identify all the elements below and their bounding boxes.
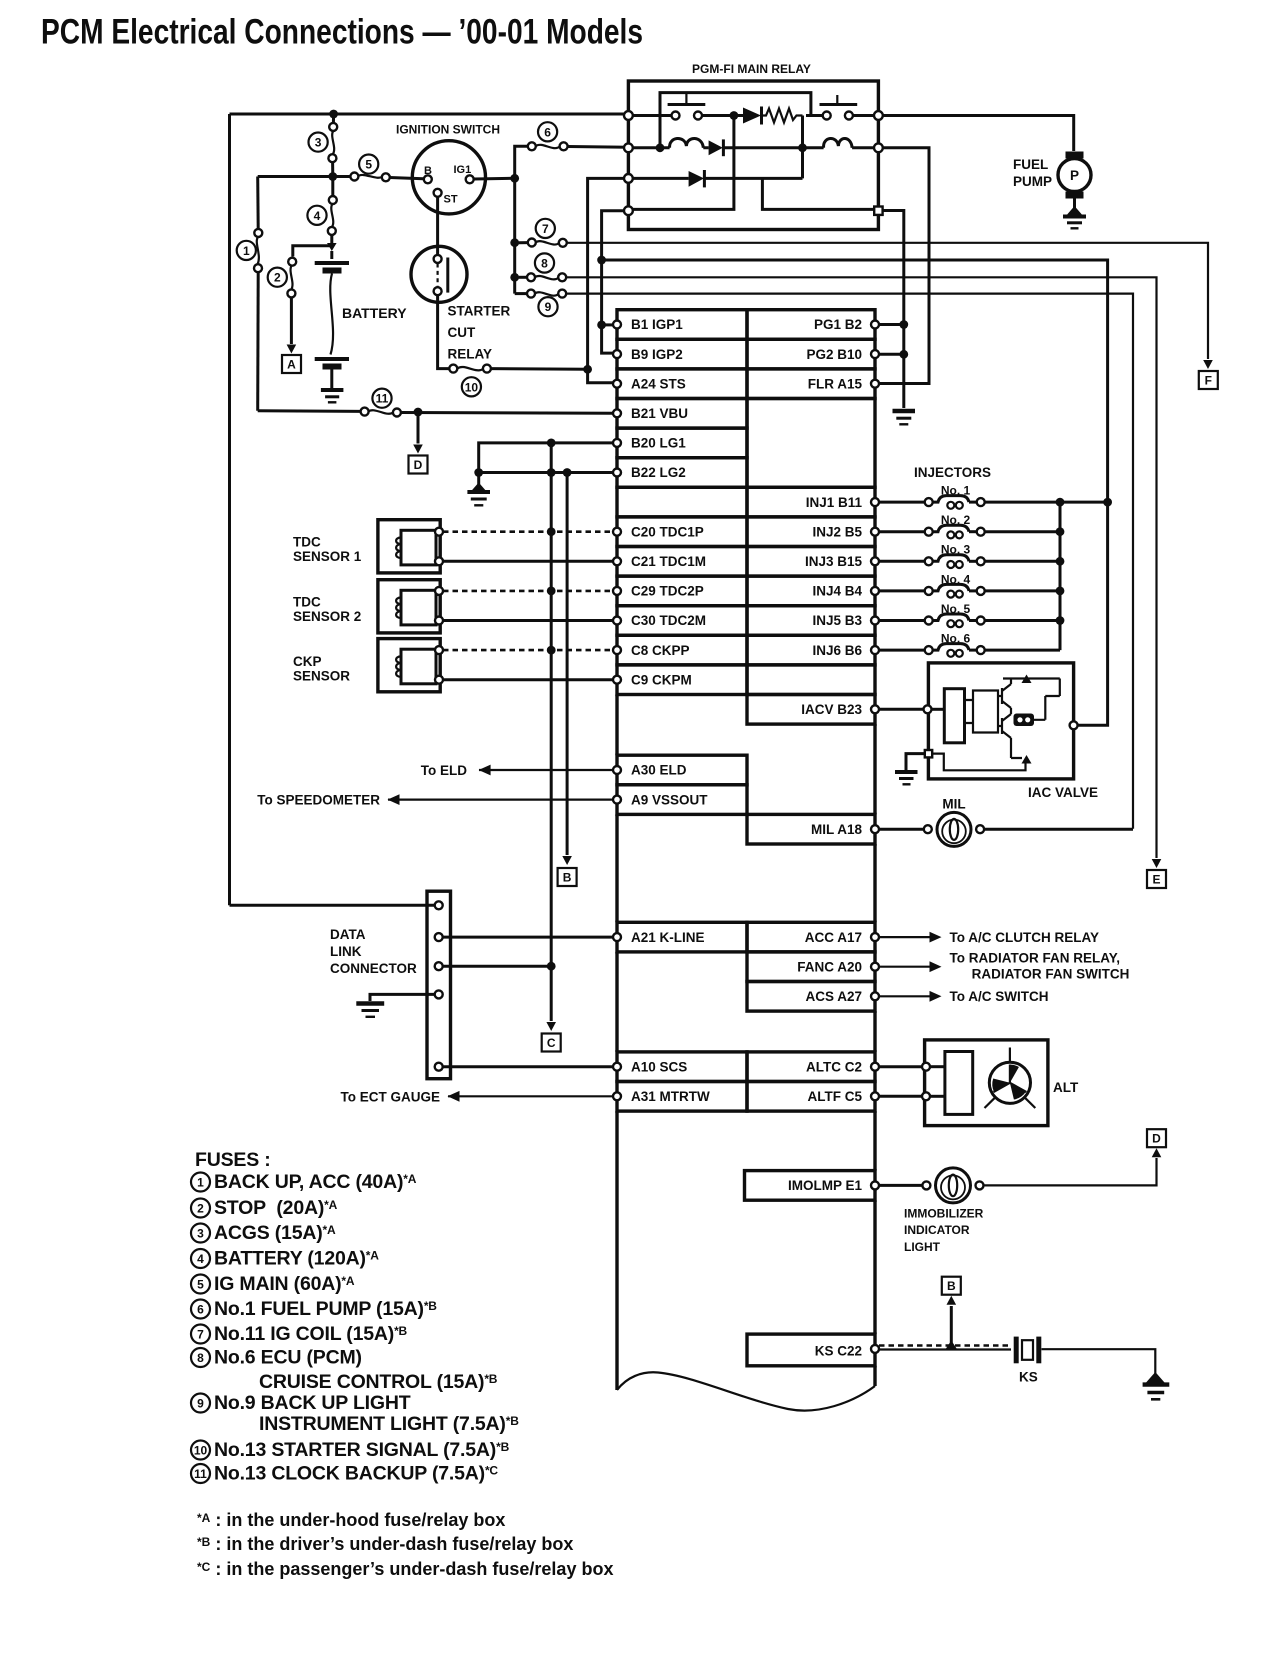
- svg-text:MIL: MIL: [942, 797, 965, 812]
- svg-text:A9 VSSOUT: A9 VSSOUT: [631, 792, 708, 807]
- pin cell A10 SCS: [617, 1052, 747, 1082]
- pin cell C21 TDC1M: [617, 547, 747, 577]
- label circled 3: [309, 133, 328, 152]
- svg-text:BACK UP, ACC (40A)*A: BACK UP, ACC (40A)*A: [214, 1171, 417, 1193]
- connector box A: [282, 355, 301, 373]
- legend fuse 6: [191, 1300, 210, 1319]
- pin terminal A21: [613, 933, 621, 941]
- pin terminal TDC2 top: [435, 587, 443, 595]
- pin cell KS C22: [747, 1334, 875, 1366]
- wire row3 branch down to row4 right: [762, 178, 874, 209]
- pin terminal PG1: [871, 321, 879, 329]
- wire FANC A20 out: [879, 966, 930, 968]
- pin terminal A30: [613, 766, 621, 774]
- wire ACC A17 out: [879, 936, 930, 938]
- fuse F7 (horizontal): [536, 241, 559, 244]
- ground IAC: [895, 770, 918, 774]
- pin cell INJ6 B6: [747, 635, 875, 665]
- pin cell C8 CKPP: [617, 635, 747, 665]
- svg-text:No.1 FUEL PUMP (15A)*B: No.1 FUEL PUMP (15A)*B: [214, 1298, 437, 1320]
- svg-text:INJ2 B5: INJ2 B5: [812, 524, 862, 539]
- fuse F3 (vertical, on battery feed): [332, 131, 334, 155]
- svg-text:IAC VALVE: IAC VALVE: [1028, 785, 1098, 800]
- pin cell ALTC C2: [747, 1052, 875, 1082]
- svg-text:CKP: CKP: [293, 654, 322, 669]
- pin terminal ALTF: [871, 1092, 879, 1100]
- svg-text:1: 1: [197, 1175, 204, 1189]
- pin cell FANC A20: [747, 952, 875, 982]
- pin cell C9 CKPM: [617, 665, 747, 695]
- relay pin2 terminal left: [624, 143, 633, 152]
- svg-text:A30 ELD: A30 ELD: [631, 763, 687, 778]
- node fuse8 tap: [510, 273, 519, 282]
- battery BAT1: [330, 251, 333, 259]
- node C8 shield junction: [547, 646, 556, 655]
- svg-text:1: 1: [243, 244, 250, 258]
- svg-text:CUT: CUT: [448, 325, 476, 340]
- svg-text:INDICATOR: INDICATOR: [904, 1223, 970, 1237]
- wire relay row2 left stub: [633, 146, 670, 149]
- wire starter cut relay to fuse 10: [438, 295, 449, 368]
- svg-text:INJ6 B6: INJ6 B6: [812, 643, 862, 658]
- svg-text:ALTF C5: ALTF C5: [808, 1089, 863, 1104]
- terminal ST: [434, 189, 442, 197]
- ground LG: [477, 473, 480, 490]
- node B1 IGP1 tap: [597, 321, 606, 330]
- wire C20 TDC1P (shielded): [443, 530, 613, 533]
- wire fuse 6 to relay pin 2: [568, 145, 629, 149]
- svg-text:SENSOR: SENSOR: [293, 669, 350, 684]
- svg-text:INSTRUMENT LIGHT (7.5A)*B: INSTRUMENT LIGHT (7.5A)*B: [259, 1413, 519, 1435]
- svg-text:C: C: [547, 1036, 556, 1050]
- svg-text:4: 4: [314, 209, 321, 223]
- svg-text:*C : in the passenger’s under-: *C : in the passenger’s under-dash fuse/…: [197, 1559, 613, 1579]
- pin terminal ACS: [871, 992, 879, 1000]
- terminal IG1: [466, 175, 474, 183]
- wire relay pin4 to IGP feed vertical: [602, 211, 629, 353]
- wire B22 LG2 row: [479, 471, 613, 474]
- wire shield drain vertical to C box: [550, 443, 553, 1021]
- svg-text:LIGHT: LIGHT: [904, 1240, 941, 1254]
- svg-text:BATTERY (120A)*A: BATTERY (120A)*A: [214, 1248, 379, 1270]
- svg-text:ALT: ALT: [1053, 1080, 1079, 1095]
- svg-text:CONNECTOR: CONNECTOR: [330, 961, 417, 976]
- wire row1 junction down to row4: [633, 116, 734, 210]
- pin cell B21 VBU: [617, 399, 747, 429]
- node LG1 shield tap: [547, 439, 556, 448]
- arrow To ELD: [479, 765, 491, 776]
- pin terminal INJ1: [871, 498, 879, 506]
- pin terminal IMOLMP: [871, 1181, 879, 1189]
- wire to D box: [417, 412, 420, 444]
- pin terminal CKP bottom: [435, 676, 443, 684]
- wire relay row1 right segment: [806, 114, 823, 117]
- pin terminal CKP top: [435, 646, 443, 654]
- pin cell A9 VSSOUT: [617, 785, 747, 815]
- pin cell IMOLMP E1: [745, 1171, 876, 1201]
- fuse F2 (vertical): [291, 265, 293, 290]
- pin cell A31 MTRTW: [617, 1082, 747, 1112]
- svg-text:6: 6: [197, 1302, 204, 1316]
- svg-text:3: 3: [197, 1226, 204, 1240]
- pin terminal KS: [871, 1345, 879, 1353]
- pin terminal A9: [613, 796, 621, 804]
- wire relay row1 left segment: [633, 114, 672, 117]
- svg-text:TDC: TDC: [293, 595, 321, 610]
- wire relay row1 mid segment: [702, 114, 743, 117]
- svg-text:ACC A17: ACC A17: [805, 930, 862, 945]
- wire C30 TDC2M: [443, 619, 613, 622]
- node battery feed junction on top bus: [329, 110, 338, 119]
- starter cut relay K2: [411, 246, 467, 302]
- terminal B: [424, 175, 432, 183]
- wire relay inner top link: [660, 93, 811, 148]
- knock sensor KS: [1014, 1337, 1019, 1364]
- svg-text:To A/C SWITCH: To A/C SWITCH: [950, 989, 1049, 1004]
- node STS junction: [583, 365, 592, 374]
- wire relay row3: [633, 148, 803, 179]
- arrow into D box: [413, 445, 423, 454]
- svg-text:IMOLMP E1: IMOLMP E1: [788, 1178, 863, 1193]
- wire KS C22 (shielded): [879, 1344, 1011, 1347]
- legend fuse 9: [191, 1394, 210, 1413]
- svg-text:To SPEEDOMETER: To SPEEDOMETER: [257, 793, 380, 808]
- svg-text:5: 5: [197, 1277, 204, 1291]
- wire LG2 branch vertical to B box: [566, 473, 569, 856]
- wire MIL to fuse 9 feed: [984, 828, 1133, 831]
- pin terminal C21: [613, 557, 621, 565]
- relay coil L1: [670, 138, 704, 147]
- IAC terminal in: [924, 705, 932, 713]
- node IG1 junction: [510, 174, 519, 183]
- connector box D lower: [1147, 1129, 1166, 1147]
- svg-text:LINK: LINK: [330, 944, 362, 959]
- wire fuse 11 to B21 VBU pin: [401, 411, 613, 415]
- lamp MIL: [937, 812, 971, 846]
- pin terminal TDC1 top: [435, 528, 443, 536]
- svg-text:11: 11: [376, 392, 389, 406]
- relay switch contact S1: [672, 112, 680, 120]
- legend fuse 5: [191, 1275, 210, 1294]
- pin terminal C9: [613, 676, 621, 684]
- IAC valve box: [928, 663, 1073, 779]
- PGM-FI main relay K1 box: [628, 81, 878, 230]
- wire fuse 8 to E box vertical (ECU feed): [566, 277, 1156, 858]
- pin cell right empty tall: [747, 399, 875, 488]
- svg-text:*B : in the driver’s under-das: *B : in the driver’s under-dash fuse/rel…: [197, 1534, 573, 1554]
- legend fuse 4: [191, 1249, 210, 1268]
- wire resistor to row2 junction: [801, 116, 804, 148]
- svg-text:INJ5 B3: INJ5 B3: [812, 613, 862, 628]
- legend fuse 11: [191, 1464, 210, 1483]
- wire immobilizer lamp to D box: [984, 1158, 1157, 1185]
- diode D3: [689, 171, 704, 187]
- svg-text:11: 11: [194, 1467, 207, 1481]
- svg-text:10: 10: [465, 380, 479, 394]
- wire C8 CKPP (shielded): [443, 649, 613, 652]
- svg-text:B20 LG1: B20 LG1: [631, 436, 686, 451]
- pin cell INJ2 B5: [747, 517, 875, 547]
- pin terminal A24: [613, 380, 621, 388]
- legend fuse 7: [191, 1325, 210, 1344]
- PCM left edge: [615, 695, 618, 1391]
- svg-text:C21 TDC1M: C21 TDC1M: [631, 554, 706, 569]
- node shield tap DLC row: [547, 962, 556, 971]
- svg-text:To ELD: To ELD: [421, 763, 467, 778]
- arrow into F box: [1203, 360, 1213, 369]
- wire relay out row4 to power ground: [883, 211, 904, 409]
- node row2 coil junction: [656, 143, 665, 152]
- svg-text:B21 VBU: B21 VBU: [631, 406, 688, 421]
- svg-text:6: 6: [544, 125, 551, 139]
- label circled 5: [359, 155, 378, 174]
- pin cell A21 K-LINE: [617, 922, 747, 952]
- data link connector box: [427, 891, 451, 1078]
- pin terminal INJ4: [871, 587, 879, 595]
- svg-text:C29 TDC2P: C29 TDC2P: [631, 584, 704, 599]
- pin cell A24 STS: [617, 369, 747, 399]
- fuse F11 (horizontal): [368, 410, 393, 414]
- svg-text:KS C22: KS C22: [815, 1344, 862, 1359]
- svg-text:PGM-FI MAIN RELAY: PGM-FI MAIN RELAY: [692, 62, 811, 76]
- svg-text:IG1: IG1: [454, 164, 472, 176]
- node row2 right junction: [798, 143, 807, 152]
- wire MIL A18 stub: [879, 828, 924, 831]
- pin terminal C29: [613, 587, 621, 595]
- ALT terminal 2: [922, 1092, 930, 1100]
- pin cell INJ4 B4: [747, 576, 875, 606]
- ground power ground below relay: [893, 409, 916, 413]
- node battery positive junction: [327, 243, 337, 251]
- wire fuse3 bottom to B-row: [331, 162, 334, 177]
- label circled 7: [536, 219, 555, 238]
- svg-text:IACV B23: IACV B23: [801, 702, 862, 717]
- arrow to radiator fan relay: [930, 961, 942, 972]
- pin terminal B9: [613, 350, 621, 358]
- diode D2: [709, 140, 723, 155]
- arrow up into B box: [947, 1296, 957, 1305]
- svg-text:FUSES :: FUSES :: [195, 1149, 271, 1171]
- legend fuse 3: [191, 1224, 210, 1243]
- wire fuse5 to ignition B terminal: [390, 178, 424, 179]
- wire relay out row2 to FLR A15: [879, 148, 929, 384]
- wire relay pin3 feed vertical to STS junction: [588, 178, 629, 369]
- pin terminal ACC: [871, 933, 879, 941]
- wire IG1 to fuse junction: [474, 177, 515, 181]
- IAC junction triangle top: [1022, 675, 1032, 684]
- node C29 shield junction: [547, 587, 556, 596]
- wire PG1 stub: [879, 323, 904, 326]
- fuse F1 (vertical): [257, 237, 259, 265]
- svg-text:C9 CKPM: C9 CKPM: [631, 672, 692, 687]
- label circled 9: [538, 297, 557, 316]
- wire IACV feed row to IAC valve vertical: [602, 260, 1108, 502]
- pin cell ACS A27: [747, 982, 875, 1012]
- IAC motor coil: [1014, 714, 1035, 727]
- svg-text:No.9 BACK UP LIGHT: No.9 BACK UP LIGHT: [214, 1392, 411, 1414]
- svg-text:2: 2: [274, 271, 281, 285]
- DLC pin 2: [435, 933, 443, 941]
- svg-text:9: 9: [545, 300, 552, 314]
- svg-text:C8 CKPP: C8 CKPP: [631, 643, 690, 658]
- pin cell row7 empty: [617, 487, 747, 517]
- svg-text:KS: KS: [1019, 1370, 1038, 1385]
- wire injector common bus: [1059, 502, 1062, 650]
- svg-text:8: 8: [197, 1351, 204, 1365]
- svg-text:No.13 CLOCK BACKUP (7.5A)*C: No.13 CLOCK BACKUP (7.5A)*C: [214, 1463, 498, 1485]
- svg-text:A10 SCS: A10 SCS: [631, 1059, 687, 1074]
- wire A30 ELD out: [479, 769, 613, 771]
- label circled 11: [372, 389, 391, 408]
- svg-text:A21 K-LINE: A21 K-LINE: [631, 930, 705, 945]
- svg-text:RADIATOR FAN SWITCH: RADIATOR FAN SWITCH: [972, 967, 1130, 982]
- pin cell ACC A17: [747, 922, 875, 952]
- node PG1 tap: [899, 320, 908, 329]
- svg-text:C20 TDC1P: C20 TDC1P: [631, 524, 704, 539]
- immobilizer lamp terminal right: [976, 1181, 984, 1189]
- pin cell ALTF C5: [747, 1082, 875, 1112]
- fuse F5 (horizontal): [358, 175, 382, 178]
- DLC pin 4: [435, 990, 443, 998]
- ALT regulator block: [945, 1052, 973, 1115]
- fuse F10 (horizontal): [457, 367, 483, 370]
- diode D1: [743, 108, 761, 124]
- wire ST to starter cut relay: [436, 197, 439, 255]
- legend fuse 1: [191, 1173, 210, 1192]
- DLC pin 5: [435, 1063, 443, 1071]
- relay switch contact S2: [823, 112, 831, 120]
- svg-text:IMMOBILIZER: IMMOBILIZER: [904, 1207, 984, 1221]
- svg-text:9: 9: [197, 1396, 204, 1410]
- wire A9 VSSOUT out: [388, 798, 613, 800]
- svg-text:E: E: [1152, 873, 1160, 887]
- wire PG2 stub: [879, 353, 904, 356]
- label circled 10: [462, 377, 481, 396]
- wire relay out row1 to fuel pump: [883, 116, 1074, 152]
- wire IG1 junction down to fuse 7/8/9: [513, 178, 516, 293]
- pin cell B22 LG2: [617, 458, 747, 488]
- svg-text:IG MAIN (60A)*A: IG MAIN (60A)*A: [214, 1273, 355, 1295]
- node LG2 shield tap: [547, 468, 556, 477]
- node KS branch junction: [946, 1341, 957, 1349]
- legend fuse 2: [191, 1199, 210, 1218]
- TDC sensor 2 box: [378, 580, 440, 633]
- ALT generator symbol: [989, 1062, 1030, 1103]
- pin terminal C30: [613, 617, 621, 625]
- connector box B lower: [942, 1277, 961, 1295]
- fuel pump motor P: [1066, 152, 1084, 159]
- svg-text:8: 8: [541, 257, 548, 271]
- wire DLC K-line to A21: [443, 936, 613, 939]
- svg-text:INJ4 B4: INJ4 B4: [812, 584, 862, 599]
- svg-text:ACGS (15A)*A: ACGS (15A)*A: [214, 1222, 336, 1244]
- wire battery branch to fuse 2: [293, 246, 332, 257]
- wire fuse 11 row: [258, 409, 361, 413]
- svg-text:*A : in the under-hood fuse/re: *A : in the under-hood fuse/relay box: [197, 1510, 505, 1530]
- pin terminal B1: [613, 321, 621, 329]
- svg-text:B1 IGP1: B1 IGP1: [631, 317, 683, 332]
- DLC pin 1: [435, 901, 443, 909]
- IAC junction triangle bottom: [1022, 755, 1032, 764]
- svg-text:B22 LG2: B22 LG2: [631, 465, 686, 480]
- svg-text:D: D: [1152, 1132, 1161, 1146]
- pin cell PG2 B10: [747, 339, 875, 369]
- svg-text:No.6 ECU (PCM): No.6 ECU (PCM): [214, 1347, 362, 1369]
- svg-text:F: F: [1205, 374, 1212, 388]
- arrow To SPEEDOMETER: [388, 794, 400, 805]
- pin cell B20 LG1: [617, 428, 747, 458]
- svg-text:SENSOR 2: SENSOR 2: [293, 609, 361, 624]
- svg-text:TDC: TDC: [293, 535, 321, 550]
- wire DLC pin4 to ground: [370, 994, 435, 1001]
- connector box C: [542, 1034, 561, 1052]
- arrow To ECT GAUGE: [448, 1091, 460, 1102]
- ignition switch SW1: [412, 141, 485, 214]
- svg-text:STARTER: STARTER: [448, 304, 511, 319]
- pin terminal INJ2: [871, 528, 879, 536]
- TDC sensor 1 box: [378, 520, 440, 573]
- wire C9 CKPM: [443, 678, 613, 681]
- PCM right edge: [873, 724, 876, 1386]
- wire fuse 9 to MIL feed vertical: [566, 294, 1133, 829]
- svg-text:ACS A27: ACS A27: [805, 989, 862, 1004]
- svg-text:MIL A18: MIL A18: [811, 822, 863, 837]
- IAC ground terminal: [925, 750, 932, 757]
- legend fuse 8: [191, 1348, 210, 1367]
- svg-text:FLR A15: FLR A15: [808, 376, 863, 391]
- svg-text:B: B: [563, 871, 572, 885]
- pin terminal FANC: [871, 963, 879, 971]
- svg-text:P: P: [1070, 168, 1079, 183]
- svg-text:5: 5: [365, 158, 372, 172]
- IAC driver internals: [965, 679, 1060, 759]
- wire fuse8 stub: [519, 276, 527, 279]
- wire ALTF C5 to ALT: [879, 1095, 922, 1098]
- wire KS to ground: [1042, 1349, 1156, 1379]
- svg-text:ST: ST: [444, 194, 458, 206]
- svg-text:No.13 STARTER SIGNAL (7.5A)*B: No.13 STARTER SIGNAL (7.5A)*B: [214, 1439, 510, 1461]
- node LG2 B-branch tap: [563, 468, 572, 477]
- svg-text:ALTC C2: ALTC C2: [806, 1059, 862, 1074]
- svg-text:B9 IGP2: B9 IGP2: [631, 347, 683, 362]
- pin cell C20 TDC1P: [617, 517, 747, 547]
- svg-text:PG2 B10: PG2 B10: [806, 347, 862, 362]
- pin cell FLR A15: [747, 369, 875, 399]
- wire IG1 junction up to fuse 6: [515, 146, 528, 178]
- arrow to A/C clutch relay: [930, 932, 942, 943]
- fuse F8 (horizontal): [535, 276, 559, 279]
- svg-text:3: 3: [315, 136, 322, 150]
- node C20 shield junction: [547, 527, 556, 536]
- arrow to A/C switch: [930, 991, 942, 1002]
- pin cell B9 IGP2: [617, 339, 747, 369]
- pin cell MIL A18: [747, 814, 875, 844]
- wire left branch vertical (fuse 1 column): [256, 177, 260, 229]
- svg-text:To ECT GAUGE: To ECT GAUGE: [341, 1089, 441, 1104]
- label circled 4: [307, 206, 326, 225]
- arrow into A box: [287, 345, 297, 354]
- pin terminal MIL: [871, 825, 879, 833]
- wire B1 IGP1 stub: [602, 323, 613, 326]
- svg-text:To A/C CLUTCH RELAY: To A/C CLUTCH RELAY: [950, 930, 1100, 945]
- wire DLC pin5 to A10 SCS: [443, 1065, 613, 1068]
- pin terminal C20: [613, 528, 621, 536]
- svg-text:7: 7: [197, 1327, 204, 1341]
- IAC terminal out: [1070, 721, 1078, 729]
- svg-text:7: 7: [542, 222, 549, 236]
- pin terminal B22: [613, 469, 621, 477]
- pin cell INJ5 B3: [747, 606, 875, 636]
